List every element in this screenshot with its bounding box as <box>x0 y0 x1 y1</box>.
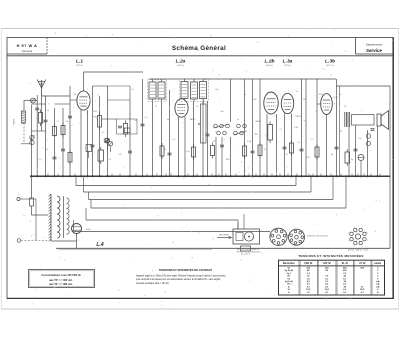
capacitor C8 <box>300 149 304 151</box>
wire V2 cathode <box>178 117 180 176</box>
title block model box <box>7 38 47 55</box>
svg-text:8: 8 <box>367 232 368 234</box>
note body line 3 <box>136 282 170 285</box>
svg-text:7: 7 <box>361 227 362 229</box>
wire top link c <box>42 95 46 97</box>
label L4 <box>96 242 103 248</box>
resistor R1 <box>39 110 43 127</box>
svg-text:2: 2 <box>361 246 362 248</box>
socket caption <box>236 248 260 254</box>
svg-text:5: 5 <box>74 93 75 95</box>
svg-text:Électrodes: Électrodes <box>283 262 295 265</box>
wire k2 <box>62 108 64 176</box>
wire sw drop1 <box>221 137 223 177</box>
terminal post B <box>17 239 48 243</box>
svg-text:L.2b: L.2b <box>264 59 274 65</box>
svg-text:mA: mA <box>376 285 380 288</box>
tuning capacitor CV2 <box>108 142 112 152</box>
capacitor C4 <box>91 145 95 147</box>
tuning gang enclosure <box>102 119 137 134</box>
wire v301 <box>301 79 303 176</box>
IF transformer T2 coil a <box>181 79 188 101</box>
svg-text:UAF42: UAF42 <box>190 118 196 121</box>
svg-text:1: 1 <box>367 240 368 242</box>
svg-text:(Omena): (Omena) <box>22 49 33 53</box>
capacitor C5 <box>141 124 145 126</box>
scan page edge bottom <box>1 308 399 310</box>
phone jack J1 <box>366 134 370 146</box>
svg-text:0,1: 0,1 <box>132 89 135 91</box>
svg-text:3n: 3n <box>244 94 246 96</box>
svg-text:50: 50 <box>340 131 342 133</box>
chassis hatched bar <box>49 194 51 241</box>
svg-text:5: 5 <box>277 95 278 97</box>
svg-text:Service: Service <box>366 48 383 53</box>
IF transformer T2 coil b <box>191 79 198 101</box>
svg-text:puis raccordé à la masse pour: puis raccordé à la masse pour une alimen… <box>136 278 221 281</box>
svg-text:2: 2 <box>299 104 300 106</box>
svg-text:3: 3 <box>290 115 291 117</box>
note body line 1 <box>136 275 226 278</box>
wire osc link <box>108 99 131 101</box>
svg-text:5: 5 <box>348 232 349 234</box>
resistor R8 <box>258 142 262 159</box>
wire T1a lead <box>152 101 154 176</box>
svg-text:250: 250 <box>306 157 309 159</box>
HT bus junction dots <box>30 175 378 177</box>
svg-text:UY 42: UY 42 <box>359 262 366 265</box>
resistor R11 <box>98 147 104 164</box>
capacitor C2 <box>44 120 48 122</box>
svg-text:H 57 W A: H 57 W A <box>17 43 38 48</box>
svg-text:4: 4 <box>73 107 74 109</box>
svg-text:0,1: 0,1 <box>145 117 148 119</box>
wire TR1 p1 <box>348 127 350 176</box>
svg-text:UCH42: UCH42 <box>92 117 98 119</box>
wire spk 1 <box>367 130 369 176</box>
wire T2a lead <box>193 101 195 176</box>
svg-text:1: 1 <box>185 97 186 99</box>
resistor R13 <box>68 150 72 166</box>
svg-text:10n: 10n <box>186 151 189 153</box>
svg-text:470: 470 <box>118 154 121 156</box>
svg-text:2n: 2n <box>237 119 239 121</box>
title Schema General <box>172 45 226 52</box>
wire v306 <box>305 79 307 176</box>
wire g V1 <box>70 99 77 101</box>
wire sw drop2 <box>215 137 217 177</box>
wire node left rail <box>31 104 33 176</box>
svg-text:0,5: 0,5 <box>339 94 342 96</box>
svg-text:3: 3 <box>354 246 355 248</box>
IF transformer T1 coil a <box>149 79 156 101</box>
wire grid cap link <box>108 86 131 100</box>
tube V4 UBC41 <box>281 93 293 113</box>
svg-text:2: 2 <box>284 103 285 105</box>
svg-text:50: 50 <box>47 110 49 112</box>
svg-text:UAF42: UAF42 <box>255 120 261 123</box>
tuning capacitor CV1 <box>105 138 109 150</box>
wire grid V1 <box>69 86 71 176</box>
wire v142 <box>142 79 144 176</box>
wire V2 screen <box>184 117 186 176</box>
svg-text:TENSIONS ET INTENSITÉS MESURÉE: TENSIONS ET INTENSITÉS MESURÉES <box>298 253 363 258</box>
svg-text:4: 4 <box>277 110 278 112</box>
capacitor C9 <box>335 147 339 149</box>
svg-text:L.4: L.4 <box>96 242 103 248</box>
measured values table <box>279 260 385 295</box>
label terre <box>14 118 16 125</box>
svg-text:40p: 40p <box>253 99 256 101</box>
resistor R5 <box>124 121 128 138</box>
wire top bus d <box>337 85 391 87</box>
svg-text:4: 4 <box>348 240 349 242</box>
svg-text:mA: mA <box>376 283 380 286</box>
svg-text:Vg 2(+4): Vg 2(+4) <box>284 269 293 272</box>
svg-text:50p: 50p <box>220 111 223 113</box>
svg-text:0,5M: 0,5M <box>294 127 299 129</box>
scan page edge top <box>1 28 399 30</box>
svg-text:0,1: 0,1 <box>173 139 176 141</box>
socket base view B <box>289 229 305 245</box>
svg-text:3: 3 <box>274 116 275 118</box>
HT bus line <box>30 175 390 177</box>
mains plug assembly <box>233 214 260 244</box>
svg-text:5: 5 <box>260 94 261 96</box>
svg-text:Vef: Vef <box>287 284 291 286</box>
electrolytic C18 <box>358 155 364 161</box>
note body line 2 <box>136 278 221 281</box>
svg-text:(472 kc): (472 kc) <box>177 65 185 67</box>
svg-text:1: 1 <box>275 90 276 92</box>
capacitor C7 <box>251 151 255 153</box>
resistor R17 <box>345 149 350 166</box>
svg-text:unités: unités <box>374 262 381 265</box>
svg-text:GO: GO <box>46 149 49 151</box>
svg-text:L.1: L.1 <box>76 59 83 65</box>
svg-text:3: 3 <box>184 119 185 121</box>
svg-text:EL41: EL41 <box>334 97 338 99</box>
output transformer TR1 body <box>352 115 375 126</box>
wire hlink2 <box>55 103 71 105</box>
svg-text:Consommations sous 125 V/50 Hz: Consommations sous 125 V/50 Hz <box>41 274 81 277</box>
wire T1b lead <box>161 101 163 176</box>
earth choke input <box>21 100 37 144</box>
rimlock socket pinout <box>348 227 368 248</box>
coil section label L.3b <box>325 59 335 68</box>
svg-text:TERRE: TERRE <box>14 118 16 125</box>
wire V4 k <box>284 114 286 177</box>
svg-text:g: g <box>334 103 335 105</box>
wire v339 <box>339 86 341 176</box>
wire V4 a <box>291 114 293 177</box>
capacitor C14 <box>168 153 172 155</box>
svg-text:0,1: 0,1 <box>57 121 60 123</box>
svg-text:UCH 42: UCH 42 <box>304 262 313 265</box>
svg-text:4: 4 <box>260 110 261 112</box>
resistor R9 <box>268 122 273 144</box>
coil section label L.1 <box>76 59 84 68</box>
svg-text:L.2a: L.2a <box>176 59 186 65</box>
wire ant coupling <box>45 96 47 176</box>
resistor R3 <box>61 123 65 138</box>
svg-text:2: 2 <box>339 104 340 106</box>
wire top bus a <box>84 71 144 73</box>
capacitor C1 <box>35 108 39 110</box>
bus stub marks <box>48 174 380 177</box>
svg-text:1M: 1M <box>213 141 216 143</box>
band switch S1 contacts <box>214 124 247 135</box>
terminal post A <box>17 197 36 200</box>
svg-text:T1: T1 <box>155 106 157 108</box>
table heading tensions mesurees <box>298 253 363 258</box>
mains label SECTEUR <box>217 235 232 239</box>
svg-text:Schéma Général: Schéma Général <box>172 45 226 52</box>
svg-text:L.3b: L.3b <box>325 59 335 65</box>
dial lamp LP1 <box>72 224 92 234</box>
svg-text:6: 6 <box>354 227 355 229</box>
rimlock socket caption <box>348 249 368 252</box>
capacitor C15 <box>220 145 224 147</box>
wire left drop <box>31 176 33 198</box>
border frame right heavy edge <box>392 38 394 299</box>
capacitor C3 <box>68 116 72 118</box>
wire V1 cathode <box>80 110 82 176</box>
wire k1 <box>54 108 56 176</box>
wire V5 k <box>326 115 328 177</box>
IF T2 shield outline <box>180 79 209 101</box>
wire hlink1 <box>32 130 46 132</box>
svg-text:SECTEUR: SECTEUR <box>219 235 229 237</box>
svg-text:4: 4 <box>172 114 173 116</box>
svg-text:(467 kc): (467 kc) <box>266 65 274 67</box>
resistor R6 <box>211 143 215 159</box>
voltage selector <box>241 246 251 256</box>
wire antenna lead <box>41 95 43 131</box>
wire v252 <box>252 79 254 176</box>
svg-text:220k: 220k <box>93 111 97 113</box>
IF transformer T2 coil c <box>200 79 207 101</box>
scan page edge left <box>0 29 2 310</box>
wire top link L1 <box>32 96 71 104</box>
svg-text:0,1: 0,1 <box>311 139 314 141</box>
output transformer TR1 laminations <box>345 112 350 127</box>
svg-text:(courant anodique total = 18 m: (courant anodique total = 18 mA). <box>136 282 170 285</box>
scan page edge right <box>398 29 400 310</box>
wire v260 <box>259 79 261 176</box>
coil section label L.2a <box>176 59 186 68</box>
svg-text:mA: mA <box>376 280 380 283</box>
speaker HP <box>377 111 389 130</box>
wire v317 <box>316 79 318 176</box>
sub bus 1 <box>76 175 297 185</box>
resistor R12 <box>86 145 92 159</box>
IF T1 shield outline <box>148 80 167 102</box>
svg-text:40: 40 <box>167 119 169 121</box>
border frame bottom heavy edge <box>7 297 394 299</box>
wire B+ right rail <box>389 86 391 248</box>
svg-text:(472 kc): (472 kc) <box>326 65 334 67</box>
resistor R16 <box>290 140 294 156</box>
wire V1 screen <box>87 110 89 176</box>
scan speckle texture <box>15 30 396 307</box>
component value labels <box>39 89 363 161</box>
wire v107 <box>107 86 109 176</box>
svg-text:UAF 42: UAF 42 <box>323 262 332 265</box>
svg-text:1M: 1M <box>303 99 306 101</box>
svg-text:(6V3): (6V3) <box>86 229 91 231</box>
capacitor C17 <box>354 149 358 151</box>
svg-text:Appareil réglé sur 1 MHz (GO): Appareil réglé sur 1 MHz (GO) bien réglé… <box>136 275 226 278</box>
svg-text:(110-245 V): (110-245 V) <box>241 254 251 256</box>
oscillator coil L4 winding <box>57 196 69 238</box>
wire v130 <box>129 100 131 176</box>
svg-text:50k: 50k <box>134 120 137 122</box>
wire V3 a <box>276 114 278 176</box>
sub bus 6 <box>74 220 271 232</box>
wire v169 <box>169 90 171 176</box>
svg-text:5n: 5n <box>298 142 300 144</box>
svg-text:0,5: 0,5 <box>102 132 105 134</box>
svg-text:T2: T2 <box>196 106 198 108</box>
svg-text:2: 2 <box>95 101 96 103</box>
capacitor C16 <box>283 147 287 149</box>
wire v231 <box>230 79 232 176</box>
wire L4 bottom <box>51 234 77 249</box>
svg-text:5: 5 <box>172 100 173 102</box>
capacitor C11 <box>61 149 65 151</box>
resistor R4 <box>98 113 102 131</box>
fuse F1 <box>30 198 49 215</box>
sub bus 2 <box>84 175 313 192</box>
capacitor C19 <box>118 126 122 128</box>
svg-text:3: 3 <box>329 116 330 118</box>
tube pin numbers <box>73 89 339 121</box>
wire v360 <box>360 161 362 177</box>
svg-text:EL 41: EL 41 <box>342 262 349 265</box>
svg-text:0,1: 0,1 <box>280 129 283 131</box>
sub bus 3 <box>89 175 335 199</box>
coil section label L.2b <box>264 59 274 68</box>
svg-text:1: 1 <box>87 89 88 91</box>
svg-text:0,1: 0,1 <box>286 154 289 156</box>
capacitor C12 <box>53 157 57 159</box>
svg-text:(472 kc): (472 kc) <box>284 65 292 67</box>
tube V2 UAF42 <box>175 99 188 117</box>
tube V1 UCH42 <box>77 91 90 110</box>
svg-text:10k: 10k <box>254 134 257 136</box>
title block service box <box>356 38 394 55</box>
svg-text:UCH42 - UAF42 - UY42: UCH42 - UAF42 - UY42 <box>348 249 368 252</box>
wire V5 g <box>317 103 321 105</box>
chassis bottom rail <box>56 248 390 250</box>
note heading tensions courant <box>159 267 213 272</box>
wire top bus c <box>149 78 336 80</box>
tube designation labels <box>92 97 338 123</box>
wire left2 <box>36 95 38 176</box>
svg-text:(472 kc): (472 kc) <box>76 65 84 67</box>
tube V5 EL41 <box>321 94 333 115</box>
socket note <box>307 236 329 238</box>
svg-text:L.3a: L.3a <box>283 59 293 65</box>
wire v336 <box>336 79 338 176</box>
svg-text:UBC41: UBC41 <box>296 116 302 118</box>
wire v92 <box>92 86 94 176</box>
socket base view A <box>270 228 287 245</box>
svg-text:Ig (2+4): Ig (2+4) <box>285 280 293 283</box>
svg-text:1k: 1k <box>264 149 266 151</box>
resistor R7 <box>243 143 247 159</box>
wire det link <box>203 78 208 80</box>
wire spk 2 <box>377 126 379 176</box>
svg-text:2: 2 <box>192 108 193 110</box>
capacitor C10 <box>371 129 375 131</box>
resistor R10 <box>315 144 319 160</box>
svg-text:aux TP : I = 300 mA.: aux TP : I = 300 mA. <box>49 279 73 282</box>
wire V3 k <box>266 114 268 176</box>
header separator line <box>7 55 393 57</box>
trimmer CA1 <box>31 98 36 103</box>
wire TR1 p2 <box>355 125 357 176</box>
resistor R14 <box>160 143 164 159</box>
capacitor C13 <box>128 151 132 153</box>
IF transformer T1 coil b <box>158 79 165 101</box>
svg-text:1: 1 <box>331 91 332 93</box>
svg-text:4: 4 <box>316 111 317 113</box>
sub bus 4 <box>91 175 347 208</box>
trimmer CA2 <box>104 138 109 143</box>
wire v244 <box>244 79 246 176</box>
svg-text:25k: 25k <box>65 121 68 123</box>
svg-text:5: 5 <box>316 96 317 98</box>
wire post rail <box>35 199 37 241</box>
consumption note box <box>29 270 95 288</box>
wire T2c lead <box>202 101 204 176</box>
svg-text:Département: Département <box>366 43 382 47</box>
grid stopper label <box>334 103 335 105</box>
resistor R18 <box>125 128 131 133</box>
svg-text:2n: 2n <box>296 91 298 93</box>
resistor R15 <box>192 144 196 160</box>
svg-text:AVC: AVC <box>226 158 230 161</box>
svg-text:aux TP : I = 380 mA.: aux TP : I = 380 mA. <box>49 283 73 286</box>
antenna <box>37 80 46 96</box>
coil L1a switch contacts <box>30 135 35 145</box>
wire V1 anode top <box>83 72 85 91</box>
svg-text:50p: 50p <box>215 89 218 91</box>
resistor R2 <box>53 124 57 139</box>
schematic border frame <box>7 38 393 299</box>
wire top link b <box>93 85 108 87</box>
svg-text:SUPPORT OCTAL DESSOUS): SUPPORT OCTAL DESSOUS) <box>236 250 260 253</box>
svg-text:1: 1 <box>292 91 293 93</box>
potentiometer P1 <box>198 99 206 144</box>
wire v207 <box>207 101 209 176</box>
wire v99 <box>99 96 101 176</box>
svg-text:Vf: Vf <box>288 289 290 291</box>
tube V3 UAF42 <box>264 92 278 114</box>
svg-text:EL41: EL41 <box>319 94 323 96</box>
svg-text:Vg 1: Vg 1 <box>286 273 291 275</box>
label pu <box>23 215 25 217</box>
svg-text:3: 3 <box>86 112 87 114</box>
sub bus 5 <box>86 208 238 229</box>
coil section label L.3a <box>283 59 293 68</box>
capacitor C6 <box>206 134 210 136</box>
